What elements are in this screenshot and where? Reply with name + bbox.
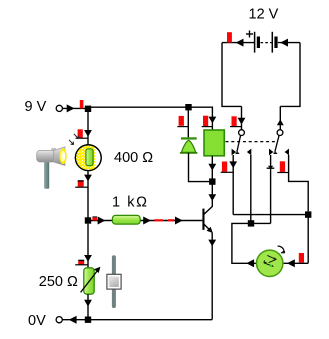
wire 0V rail [63,319,213,321]
current dash 1 on base wire [154,219,163,221]
terminal 9V [56,105,62,111]
battery B1 12V top wire left segment [222,42,255,44]
relay actuation dashed line [226,141,276,143]
battery B1 top wire right segment [278,42,300,44]
flow arrow below pot [84,300,92,307]
motor rotation arrow [278,246,285,253]
wire emitter vertical [211,233,213,320]
resistor R2 1 kohm [112,215,140,224]
battery B1 cell1 short plate [257,37,260,49]
motor M1 [257,250,283,276]
transistor Q1 base bar [202,209,204,230]
flow arrow into LDR [84,130,92,137]
flow arrow on switch1 left wire [229,161,237,168]
flow arrow after resistor R2 [143,217,151,225]
current bar on relay coil top wire [202,116,213,127]
potentiometer R3 diagonal arrow [81,267,101,293]
wire battery right drop to switch 2 [279,106,281,129]
svg-text:0V: 0V [28,313,46,329]
svg-text:1 kΩ: 1 kΩ [112,195,149,211]
node junction line2 / switch1 middle [248,220,254,226]
wire diode branch upper [187,110,189,138]
wire motor right horizontal [284,262,309,264]
battery B1 plus sign [246,31,253,38]
current bar on motor right wire [299,253,304,263]
current bar above LDR [76,129,88,138]
current dash 2 on base wire [168,219,174,221]
flow arrow on emitter wire [208,240,216,247]
flow arrow into pot [84,255,92,262]
relay switch S1 left contact [232,149,236,156]
wire motor feed line2 [232,223,271,263]
wire switch2 right contact drop [289,155,309,211]
flow arrow into switch 1 common [238,118,246,125]
flow arrow on 9V rail [67,104,75,112]
wire collector drop [211,182,213,207]
current bar on diode wire [177,116,188,127]
wire LDR branch upper [87,111,89,145]
relay switch S1 pivot [239,130,245,136]
relay switch S2 left contact [269,149,273,156]
potentiometer R3 250 ohm body [84,268,94,294]
flow arrow up on switch 2 common [277,119,284,125]
relay switch S2 right contact [285,149,289,156]
current bar on battery top wire [227,32,232,42]
wire LDR branch lower [87,171,89,221]
flow arrow before resistor R2 [98,217,106,225]
zero current tick on switch2 left wire [267,166,275,169]
diode D1 triangle [180,140,197,153]
svg-text:12 V: 12 V [249,6,279,22]
current bar on 9V rail [80,100,84,108]
node junction 9V rail / LDR branch [85,106,91,112]
wire battery right vertical [280,43,300,107]
flow arrow below LDR [84,175,92,182]
node junction base/LDR/pot [85,217,91,223]
wire 9V rail to relay coil corner [189,107,213,130]
LDR R1 body [75,145,101,171]
svg-text:400 Ω: 400 Ω [114,150,153,166]
LDR light arrows [69,134,78,145]
current bar above pot [75,260,88,265]
flow arrow into collector [208,194,216,201]
current bar below LDR [75,180,88,187]
wire battery left vertical [222,43,242,107]
flow arrow right of battery [280,39,288,47]
wire relay coil bottom [211,156,213,182]
wire motor right vertical [307,215,309,264]
transistor Q1 emitter lead with arrow [204,224,213,233]
slider control for pot [107,255,121,308]
relay switch S1 middle contact [247,149,251,156]
node junction coil/diode/collector [209,178,215,184]
svg-text:250 Ω: 250 Ω [39,274,78,290]
battery B1 inter-cell dashed link [261,42,272,44]
current bar on switch 1 common wire [230,116,242,126]
terminal 0V [56,317,62,323]
flow arrow left of battery [236,39,244,47]
torch lamp [37,147,67,189]
wire pot branch lower [87,294,89,319]
relay switch S2 pivot [277,130,283,136]
wire battery left drop to switch 1 [241,106,243,129]
flow arrow on motor right wire [287,259,295,267]
node junction line1 / switch2 right / motor right [305,211,311,217]
flow arrow below relay coil [208,164,216,171]
wire 9V rail [63,107,189,108]
relay switch S2 arm [274,135,280,153]
transistor Q1 collector lead [204,206,213,214]
node junction 0V rail / pot [85,317,91,323]
wire switch1 middle contact drop [250,155,252,223]
flow arrow toward 0V terminal [69,316,77,324]
relay switch S1 arm [236,135,241,153]
relay coil K1 [204,130,224,156]
diode D1 cathode bar [181,137,197,139]
flow arrow on motor left wire [246,259,254,267]
flow arrow into relay coil [209,117,217,124]
wire base from junction to transistor [88,220,202,222]
wire switch2 left contact drop [270,155,272,223]
svg-text:9 V: 9 V [25,99,47,115]
current bar on switch2 right wire [277,161,288,172]
current bar on switch1 left wire [221,162,234,173]
battery B1 cell1 long plate [254,32,256,53]
wire switch1 left contact drop [232,155,234,215]
flow arrow at transistor base [175,217,183,225]
node junction 9V rail / diode branch [185,104,191,110]
wire diode branch lower [189,153,213,182]
current bar tiny at base junction [92,216,97,220]
battery B1 cell2 long plate [271,32,273,53]
battery B1 cell2 short plate [274,37,277,49]
wire motor feed line1 [233,214,308,216]
wire pot branch upper [87,224,89,268]
